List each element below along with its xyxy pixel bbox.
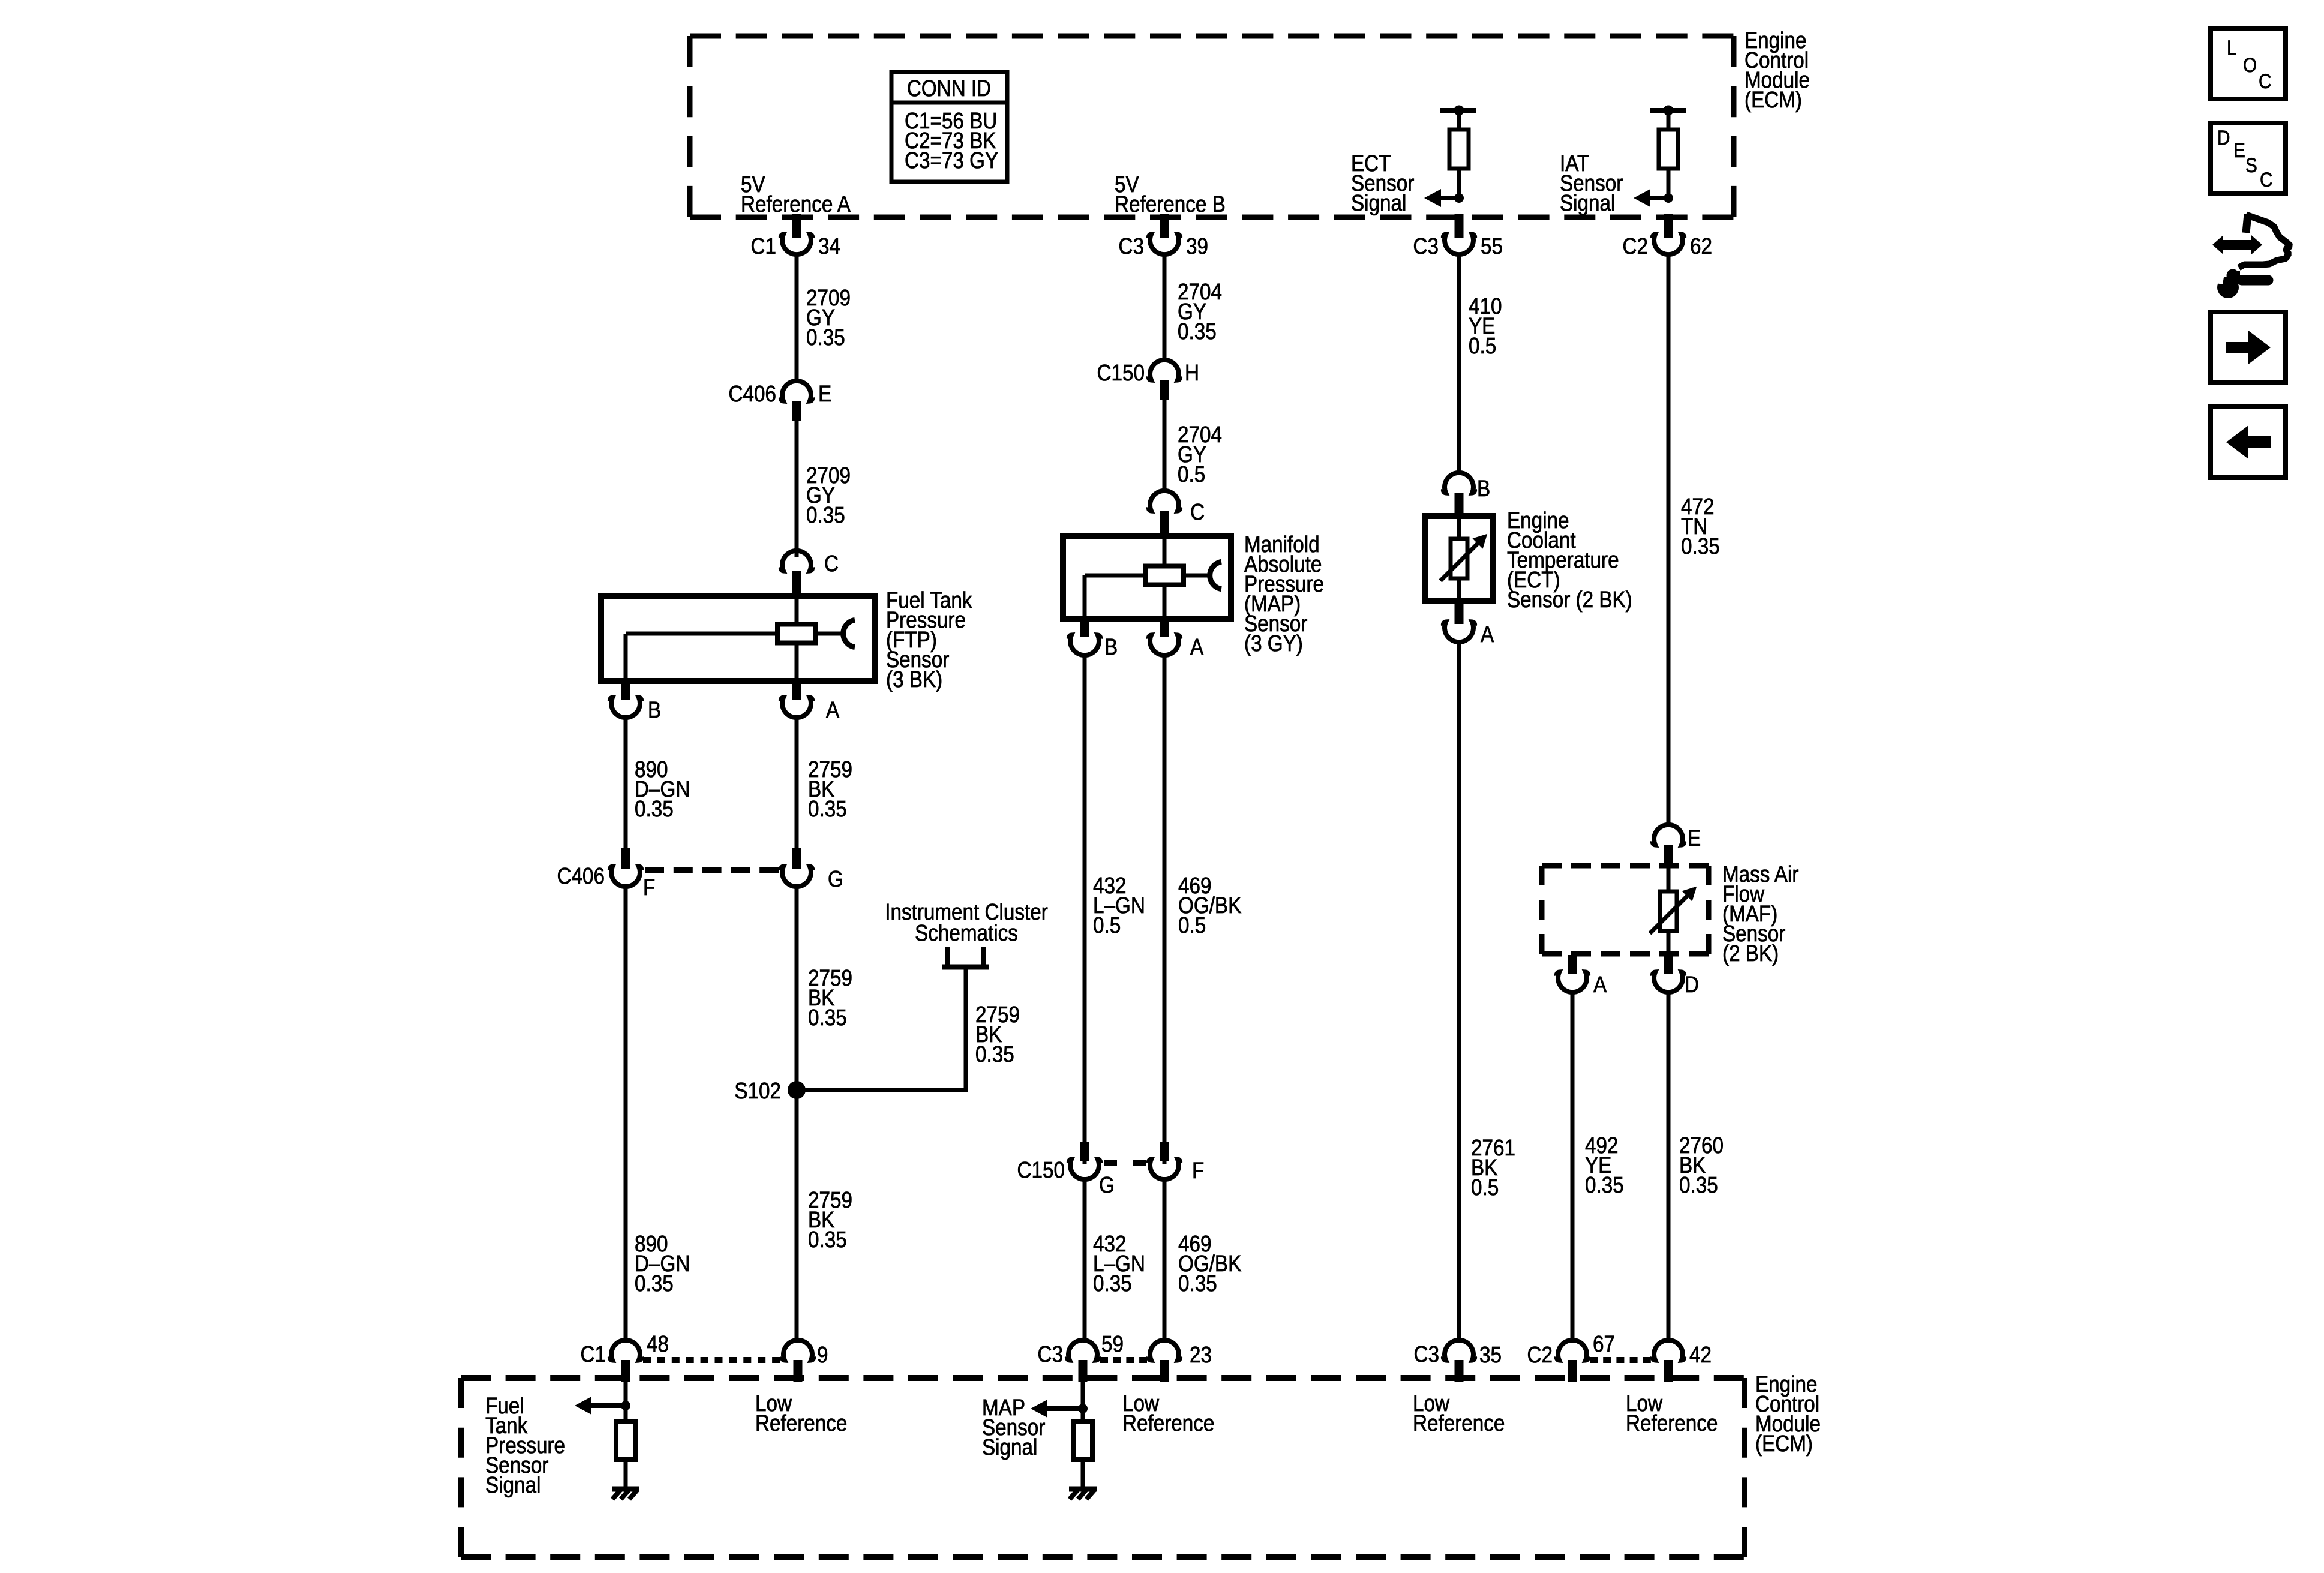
label wire 410 YE 0.5 bbox=[1469, 293, 1502, 359]
svg-text:0.35: 0.35 bbox=[806, 325, 845, 350]
label ECT Sensor Signal bbox=[1351, 151, 1414, 216]
svg-text:0.5: 0.5 bbox=[1093, 912, 1121, 938]
connector MAF pin A bbox=[1557, 955, 1607, 998]
connector FTP pin B bbox=[610, 681, 661, 723]
label wire 2759 BK 0.35 (below C406 G) bbox=[808, 965, 852, 1031]
MAF thermistor symbol bbox=[1650, 864, 1697, 955]
svg-text:48: 48 bbox=[647, 1331, 669, 1357]
svg-text:C406: C406 bbox=[557, 863, 605, 889]
ECM module box (bottom, dashed) bbox=[461, 1378, 1744, 1557]
label wire 432 L-GN 0.5 bbox=[1093, 873, 1145, 938]
svg-text:Reference: Reference bbox=[1122, 1410, 1214, 1436]
svg-text:0.5: 0.5 bbox=[1471, 1175, 1499, 1200]
svg-text:C3: C3 bbox=[1038, 1341, 1063, 1367]
connector C150 pin F bbox=[1149, 1142, 1204, 1184]
label wire 2704 GY 0.5 bbox=[1178, 422, 1222, 487]
svg-text:0.35: 0.35 bbox=[806, 502, 845, 528]
svg-text:C1: C1 bbox=[581, 1341, 606, 1367]
svg-text:D: D bbox=[2217, 126, 2230, 149]
svg-text:55: 55 bbox=[1481, 233, 1503, 259]
svg-text:(2 BK): (2 BK) bbox=[1722, 941, 1779, 966]
MAP pressure transducer symbol bbox=[1210, 562, 1221, 589]
connector C150 pin G bbox=[1017, 1142, 1115, 1198]
splice S102 bbox=[734, 1078, 806, 1104]
label wire 2759 BK 0.35 (above C406 G) bbox=[808, 757, 852, 822]
label wire 469 OG/BK 0.5 bbox=[1178, 873, 1241, 938]
svg-text:F: F bbox=[643, 875, 655, 900]
label wire 492 YE 0.35 bbox=[1585, 1133, 1624, 1198]
connector C3 pin 39 (5V Reference B) bbox=[1119, 214, 1208, 259]
svg-text:35: 35 bbox=[1479, 1342, 1502, 1368]
svg-text:G: G bbox=[1099, 1172, 1115, 1198]
svg-text:0.35: 0.35 bbox=[1681, 533, 1720, 559]
FTP pressure transducer symbol bbox=[843, 620, 855, 647]
wire 2760 BK (MAF D to pin 42) bbox=[1667, 990, 1671, 1343]
CONN ID table bbox=[891, 72, 1007, 182]
connector MAP pin B bbox=[1069, 622, 1118, 660]
svg-text:62: 62 bbox=[1690, 233, 1712, 259]
icon box arrow left bbox=[2211, 407, 2286, 478]
FTP internal wiring + sense resistor bbox=[626, 599, 842, 681]
connector C1 pin 9 (low reference) bbox=[782, 1340, 828, 1382]
connector MAP pin A bbox=[1149, 622, 1203, 660]
label wire 2709 GY 0.35 (lower) bbox=[806, 463, 851, 528]
svg-text:0.5: 0.5 bbox=[1178, 912, 1206, 938]
svg-text:0.35: 0.35 bbox=[808, 1005, 847, 1031]
svg-text:O: O bbox=[2243, 53, 2257, 76]
connector C2 pin 67 (low reference) bbox=[1527, 1331, 1615, 1382]
icon box arrow right bbox=[2211, 312, 2286, 383]
svg-text:C: C bbox=[824, 551, 839, 577]
wire 2704 GY (C150-H to MAP C) bbox=[1163, 398, 1167, 493]
svg-text:S: S bbox=[2245, 154, 2257, 176]
connector C2 pin 62 (IAT signal) bbox=[1623, 214, 1712, 259]
label wire 432 L-GN 0.35 bbox=[1093, 1231, 1145, 1296]
jumper dashes C3 59-23 bbox=[1100, 1357, 1147, 1363]
label Low Reference (pin 35) bbox=[1413, 1391, 1505, 1436]
ECM module box (top, dashed) bbox=[690, 36, 1734, 217]
connector pin 23 (low reference) bbox=[1149, 1340, 1212, 1382]
svg-text:0.35: 0.35 bbox=[1178, 1271, 1217, 1296]
svg-text:C: C bbox=[2259, 70, 2271, 92]
connector FTP pin A bbox=[781, 681, 839, 723]
svg-text:C150: C150 bbox=[1097, 360, 1145, 386]
svg-text:D: D bbox=[1685, 972, 1699, 998]
svg-text:Reference A: Reference A bbox=[741, 191, 851, 217]
MAP sensor box bbox=[1063, 536, 1231, 619]
connector pin 42 (low reference) bbox=[1653, 1340, 1712, 1382]
svg-text:A: A bbox=[1190, 634, 1203, 660]
label wire 2760 BK 0.35 bbox=[1679, 1133, 1724, 1198]
jumper dashes C2 67-42 bbox=[1590, 1357, 1651, 1363]
label Low Reference (pin 9) bbox=[755, 1391, 847, 1436]
svg-text:0.5: 0.5 bbox=[1178, 461, 1205, 487]
svg-text:0.35: 0.35 bbox=[808, 1227, 847, 1253]
svg-text:C: C bbox=[1190, 499, 1205, 525]
svg-text:0.35: 0.35 bbox=[1679, 1172, 1718, 1198]
svg-text:C3: C3 bbox=[1413, 233, 1439, 259]
ground (MAP signal load) bbox=[1069, 1487, 1097, 1492]
jumper dashes C150 G-F bbox=[1104, 1160, 1146, 1166]
label Engine Control Module (ECM) bottom right bbox=[1755, 1371, 1821, 1457]
node ECT sensor signal junction + arrow bbox=[1424, 189, 1464, 207]
svg-text:59: 59 bbox=[1101, 1331, 1124, 1357]
wire 492 YE (MAF A to C2-67) bbox=[1571, 990, 1575, 1343]
node IAT sensor signal junction + arrow bbox=[1634, 189, 1673, 207]
svg-text:C: C bbox=[2260, 168, 2272, 191]
icon box DESC bbox=[2211, 123, 2286, 193]
svg-text:0.35: 0.35 bbox=[1093, 1271, 1132, 1296]
svg-text:(ECM): (ECM) bbox=[1755, 1431, 1813, 1457]
wire 2759 BK (FTP A to C406 G) bbox=[795, 715, 799, 869]
wire 472 TN (C2-62 to MAF E) bbox=[1667, 253, 1671, 827]
ECT sensor box bbox=[1425, 516, 1493, 601]
svg-text:C2: C2 bbox=[1623, 233, 1648, 259]
wire 890 D-GN (C406 F to C1-48) bbox=[624, 884, 628, 1343]
ground (FTP signal load) bbox=[612, 1487, 639, 1492]
svg-text:Schematics: Schematics bbox=[915, 920, 1018, 946]
label 5V Reference B bbox=[1115, 172, 1226, 217]
svg-text:C406: C406 bbox=[729, 381, 776, 407]
svg-text:Reference: Reference bbox=[755, 1410, 847, 1436]
icon wiring pigtail with double arrow and wrench bbox=[2210, 214, 2290, 298]
label Engine Coolant Temperature (ECT) Sensor (2 BK) bbox=[1507, 508, 1632, 613]
svg-text:(ECM): (ECM) bbox=[1744, 87, 1802, 113]
svg-text:42: 42 bbox=[1689, 1342, 1712, 1368]
connector ECT pin A bbox=[1443, 604, 1494, 647]
svg-text:E: E bbox=[818, 381, 831, 407]
connector C1 pin 48 (FTP signal) bbox=[581, 1331, 669, 1382]
wire 432 L-GN (MAP B to C150 G) bbox=[1083, 653, 1087, 1164]
label Engine Control Module (ECM) top right bbox=[1744, 28, 1810, 113]
wire 469 OG/BK (C150 F to pin 23) bbox=[1163, 1177, 1167, 1343]
svg-text:(3 BK): (3 BK) bbox=[886, 667, 942, 692]
svg-text:B: B bbox=[648, 697, 661, 723]
svg-text:Reference: Reference bbox=[1413, 1410, 1505, 1436]
FTP sensor box bbox=[601, 596, 875, 681]
svg-text:C3=73 GY: C3=73 GY bbox=[905, 148, 998, 173]
svg-text:Signal: Signal bbox=[982, 1434, 1037, 1460]
label 5V Reference A bbox=[741, 172, 851, 217]
svg-text:C150: C150 bbox=[1017, 1157, 1065, 1183]
connector MAF pin E bbox=[1653, 825, 1701, 865]
svg-text:C1: C1 bbox=[751, 233, 776, 259]
connector C3 pin 59 (MAP signal) bbox=[1038, 1331, 1124, 1382]
svg-text:A: A bbox=[826, 697, 839, 723]
svg-text:Reference B: Reference B bbox=[1115, 191, 1226, 217]
svg-text:0.35: 0.35 bbox=[975, 1041, 1014, 1067]
svg-text:Signal: Signal bbox=[485, 1472, 541, 1498]
label IAT Sensor Signal bbox=[1560, 151, 1623, 216]
label Fuel Tank Pressure Sensor Signal bbox=[485, 1393, 565, 1498]
label wire 2759 BK 0.35 (instrument cluster branch) bbox=[975, 1002, 1020, 1067]
connector C3 pin 55 (ECT signal) bbox=[1413, 214, 1503, 259]
MAP internal wiring + sense resistor bbox=[1085, 539, 1209, 622]
wire 432 L-GN (C150 G to C3-59) bbox=[1083, 1177, 1087, 1343]
label Low Reference (pin 42) bbox=[1626, 1391, 1718, 1436]
icon box LOC bbox=[2211, 29, 2286, 99]
label wire 890 D-GN 0.35 (lower) bbox=[635, 1231, 690, 1296]
svg-text:34: 34 bbox=[818, 233, 840, 259]
label Fuel Tank Pressure (FTP) Sensor (3 BK) bbox=[886, 587, 972, 692]
label MAP Sensor Signal bbox=[982, 1395, 1045, 1460]
connector C3 pin 35 (low reference) bbox=[1414, 1340, 1502, 1382]
connector C406 pin G bbox=[781, 848, 843, 892]
svg-text:Signal: Signal bbox=[1351, 190, 1406, 216]
svg-text:Signal: Signal bbox=[1560, 190, 1615, 216]
label wire 890 D-GN 0.35 bbox=[635, 757, 690, 822]
svg-text:Reference: Reference bbox=[1626, 1410, 1718, 1436]
wire 2759 BK (C406 G to S102) bbox=[795, 884, 799, 1090]
IAT pull-up resistor inside ECM bbox=[1650, 106, 1686, 199]
label Mass Air Flow (MAF) Sensor (2 BK) bbox=[1722, 861, 1799, 966]
svg-text:CONN ID: CONN ID bbox=[907, 76, 991, 101]
wire 2709 GY (C1-34 to C406-E) bbox=[795, 253, 799, 383]
connector FTP pin C bbox=[781, 551, 839, 595]
ECT thermistor symbol bbox=[1440, 516, 1487, 601]
jumper dashes C1 48-9 bbox=[643, 1357, 780, 1363]
connector C150 pin H bbox=[1097, 360, 1199, 400]
connector C406 pin E bbox=[729, 381, 832, 421]
svg-text:0.35: 0.35 bbox=[635, 796, 674, 822]
wire 2761 BK (ECT A to C3-35) bbox=[1457, 640, 1461, 1343]
wire 890 D-GN (FTP B to C406 F) bbox=[624, 715, 628, 869]
svg-text:L: L bbox=[2227, 36, 2237, 59]
svg-text:0.35: 0.35 bbox=[635, 1271, 674, 1296]
svg-text:23: 23 bbox=[1190, 1342, 1212, 1368]
svg-text:67: 67 bbox=[1593, 1331, 1615, 1357]
label wire 2759 BK 0.35 (bottom) bbox=[808, 1187, 852, 1253]
label wire 472 TN 0.35 bbox=[1681, 494, 1720, 559]
svg-text:Sensor (2 BK): Sensor (2 BK) bbox=[1507, 587, 1632, 613]
svg-text:F: F bbox=[1192, 1158, 1204, 1184]
svg-text:S102: S102 bbox=[734, 1078, 781, 1104]
wire 2704 GY (C3-39 to C150-H) bbox=[1163, 253, 1167, 362]
wire 469 OG/BK (MAP A to C150 F) bbox=[1163, 653, 1167, 1164]
connector ECT pin B bbox=[1443, 473, 1490, 515]
svg-text:E: E bbox=[1688, 825, 1701, 851]
svg-text:0.35: 0.35 bbox=[1178, 319, 1217, 344]
wire 2759 BK (S102 to pin 9) bbox=[795, 1090, 799, 1343]
wire 2709 GY (C406-E to FTP C) bbox=[795, 420, 799, 557]
svg-text:39: 39 bbox=[1186, 233, 1208, 259]
FTP signal input network inside ECM bbox=[575, 1378, 635, 1488]
svg-text:E: E bbox=[2233, 139, 2245, 161]
MAP signal input network inside ECM bbox=[1031, 1378, 1092, 1488]
jumper dashes C406 F-G bbox=[645, 867, 779, 873]
svg-text:H: H bbox=[1185, 360, 1199, 386]
wire 2759 BK from instrument cluster to S102 bbox=[797, 967, 968, 1090]
svg-text:9: 9 bbox=[817, 1342, 828, 1368]
connector MAF pin D bbox=[1653, 955, 1699, 998]
svg-text:0.35: 0.35 bbox=[1585, 1172, 1624, 1198]
label Manifold Absolute Pressure (MAP) Sensor (3 GY) bbox=[1244, 532, 1324, 656]
ECT pull-up resistor inside ECM bbox=[1440, 106, 1476, 199]
svg-text:A: A bbox=[1481, 622, 1494, 647]
label Low Reference (pin 23) bbox=[1122, 1391, 1214, 1436]
svg-text:C3: C3 bbox=[1119, 233, 1144, 259]
svg-text:0.5: 0.5 bbox=[1469, 333, 1496, 359]
off-page connector bracket to instrument cluster bbox=[942, 947, 989, 967]
connector C1 pin 34 (5V Reference A) bbox=[751, 214, 840, 259]
label wire 469 OG/BK 0.35 bbox=[1178, 1231, 1241, 1296]
wire 410 YE (C3-55 to ECT B) bbox=[1457, 253, 1461, 475]
connector C406 pin F bbox=[557, 848, 656, 900]
svg-text:C3: C3 bbox=[1414, 1341, 1439, 1367]
label wire 2704 GY 0.35 bbox=[1178, 279, 1222, 344]
label wire 2709 GY 0.35 (upper) bbox=[806, 285, 851, 350]
connector MAP pin C bbox=[1149, 491, 1205, 535]
svg-text:G: G bbox=[828, 866, 843, 892]
svg-text:B: B bbox=[1104, 634, 1118, 660]
svg-text:(3 GY): (3 GY) bbox=[1244, 631, 1303, 656]
svg-text:C2: C2 bbox=[1527, 1342, 1553, 1368]
label Instrument Cluster Schematics bbox=[885, 899, 1048, 946]
svg-text:A: A bbox=[1593, 972, 1607, 998]
svg-text:0.35: 0.35 bbox=[808, 796, 847, 822]
label wire 2761 BK 0.5 bbox=[1471, 1135, 1515, 1200]
svg-text:B: B bbox=[1477, 476, 1490, 502]
MAF sensor box (dashed) bbox=[1542, 866, 1709, 954]
